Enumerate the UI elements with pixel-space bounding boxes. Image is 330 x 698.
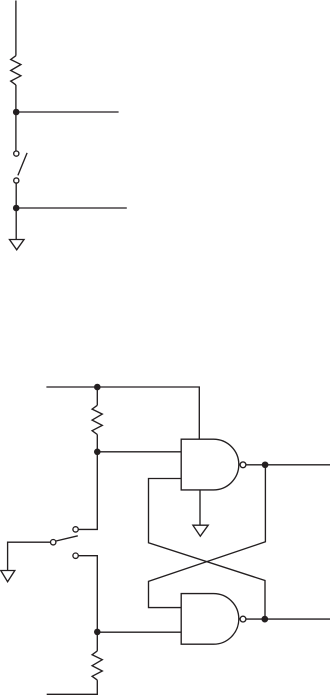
wire J5 to U1B input 2 xyxy=(97,631,183,633)
wire top lead into R1 xyxy=(15,1,17,56)
switch S2 blade xyxy=(56,536,78,541)
output bubble U1A xyxy=(240,462,246,468)
nand gate U1B body xyxy=(181,594,239,645)
ground symbol G2 xyxy=(193,525,208,536)
wire horizontal from J1 xyxy=(16,111,119,113)
node junction J7 on U1B output xyxy=(261,616,268,623)
wire VCC rail to U1A power pin xyxy=(46,387,199,440)
switch S1 terminal circle (bottom) xyxy=(14,178,19,183)
nand gate U1A body xyxy=(181,439,239,490)
ground symbol G3 xyxy=(1,571,15,582)
wire S1 bottom to ground xyxy=(15,183,17,239)
node junction J6 on U1A output xyxy=(262,461,269,468)
wire J3 to R2 xyxy=(96,387,98,405)
node junction J5 xyxy=(94,629,101,636)
switch S2 throw 2 circle xyxy=(73,553,78,558)
wire U1A output xyxy=(246,464,330,466)
wire horizontal from J2 xyxy=(16,207,127,209)
switch S2 throw 1 circle xyxy=(73,527,78,532)
ground symbol G1 xyxy=(10,240,25,250)
resistor R2 xyxy=(92,405,102,434)
wire R2 bottom down to switch S2 throw 1 xyxy=(78,435,97,530)
node junction J2 xyxy=(13,205,20,212)
node junction J1 xyxy=(13,109,20,116)
wire R3 bottom left turn xyxy=(47,680,98,694)
resistor R1 xyxy=(11,56,21,85)
wire S2 pole to ground xyxy=(8,542,51,570)
resistor R3 xyxy=(92,651,102,680)
switch S2 pole circle xyxy=(51,540,56,545)
wire R1 bottom to switch S1 xyxy=(15,85,17,151)
output bubble U1B xyxy=(240,616,246,622)
switch S1 blade xyxy=(18,153,27,176)
node junction J3 xyxy=(94,384,101,391)
node junction J4 xyxy=(94,449,101,456)
wire J4 to U1A input 1 xyxy=(97,451,183,453)
wire U1B output xyxy=(246,618,330,620)
wire cross-couple: U1A output down to U1B input 1 xyxy=(149,465,266,608)
wire cross-couple: U1B output up to U1A input 2 xyxy=(149,479,266,620)
wire S2 throw 2 to J5 xyxy=(78,556,97,632)
wire U1A ground pin xyxy=(199,490,201,525)
wire J5 to R3 xyxy=(96,632,98,651)
switch S1 terminal circle (top) xyxy=(14,151,19,156)
